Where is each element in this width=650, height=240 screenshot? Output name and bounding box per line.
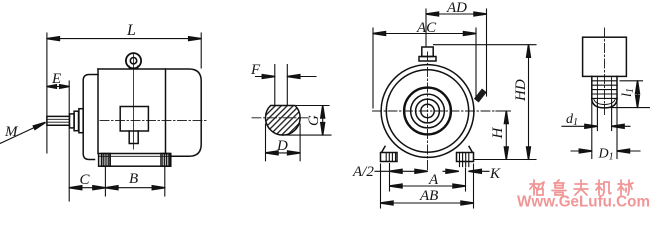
shaft circle [421,104,434,117]
hanzi xie (械) [618,180,633,195]
dimension D1 [571,150,640,152]
svg-text:D: D [276,138,288,154]
dimension l1 [610,81,650,108]
svg-text:F: F [250,62,261,78]
thread lines [592,81,617,99]
right foot bolt lines [460,153,469,167]
dimension d1 [562,125,630,127]
svg-text:A/2: A/2 [352,164,374,180]
foot bar [99,154,171,167]
shaft [47,116,70,125]
dimension K [443,170,489,172]
terminal box stub [129,131,138,144]
dimension D [266,124,301,161]
svg-text:C: C [80,172,91,188]
svg-text:H: H [490,127,506,140]
ground extension line [475,159,537,161]
terminal stub flange [419,57,436,62]
svg-text:AB: AB [419,188,438,204]
dimension A [390,164,466,192]
crosshair vertical [427,52,429,172]
dimension AC [373,28,476,108]
foot bolt block right (hatched) [161,154,170,167]
frame inner circle [386,70,468,152]
dimension A/2 [375,170,428,172]
stud outer sides [592,76,617,99]
dimension E [47,81,69,201]
svg-text:E: E [51,71,61,87]
terminal box [120,107,148,132]
leader M arrow [0,123,45,144]
left foot [381,146,398,161]
end shield circle [404,88,451,135]
shaft section circle with keyway flat, hatched [266,106,301,136]
bearing boss circle [411,94,445,128]
keyway side lines [275,65,288,106]
seam line right [165,69,167,154]
shaft key lines [47,119,70,122]
hanzi ji (机) [596,180,611,195]
svg-text:M: M [4,124,19,140]
dimensions C and B line [69,167,165,196]
svg-text:B: B [129,171,138,187]
svg-text:d1: d1 [566,112,578,128]
svg-text:HD: HD [513,79,529,102]
right foot [457,146,474,161]
svg-text:AD: AD [446,0,467,16]
dimension L [47,33,201,153]
dimension HD [528,45,530,160]
eye bolt centerline [133,54,135,149]
svg-text:D1: D1 [598,147,614,163]
end bell left section [83,75,98,160]
dimension G [286,106,331,136]
dome inner arc [594,98,616,104]
stub top extension line [434,44,537,46]
seam line left [97,69,99,154]
frame outer circle [381,65,474,158]
dimension F [256,76,317,78]
motor body outline [98,69,201,156]
svg-text:L: L [126,22,136,39]
hanzi fu (夫) [574,180,588,195]
dimension H [505,111,507,160]
lug top right [474,89,487,103]
hanzi ge (格) [530,180,544,195]
dimension AB [381,164,474,208]
dome tip [592,98,617,108]
foot bar inner line [99,155,171,157]
dimension AD [426,9,487,96]
svg-text:AC: AC [416,20,437,36]
svg-text:A: A [428,172,439,188]
collar [583,37,627,76]
svg-text:K: K [489,166,501,182]
foot bolt block left (hatched) [102,154,111,167]
svg-text:Www.GeLufu.Com: Www.GeLufu.Com [517,194,650,211]
eye bolt [126,53,141,68]
extension lines down [592,100,617,159]
shaft boss circle [416,99,440,123]
crosshair horizontal [373,110,511,112]
svg-text:l1: l1 [620,88,636,97]
stud root lines [597,76,611,99]
collar centerline [604,28,606,115]
shaft step rings [70,114,75,128]
shaft centerline [100,120,207,122]
left foot bolt lines [386,153,395,162]
section centerline [252,117,308,119]
hanzi lu (鲁) [552,180,566,195]
svg-text:G: G [306,115,322,126]
terminal stub [422,47,433,57]
